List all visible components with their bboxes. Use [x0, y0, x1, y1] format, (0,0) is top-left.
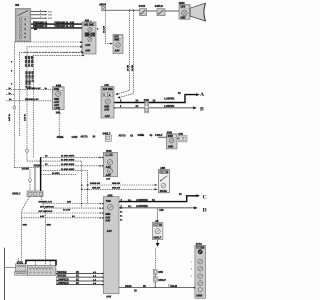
svg-text:3ME: 3ME	[114, 39, 119, 42]
inline connector S4/3	[144, 99, 150, 113]
wire D LOSPKR	[119, 205, 198, 212]
switch S4/5LO	[155, 5, 165, 15]
amplifier A33	[101, 84, 115, 118]
dashed bottom row 2	[40, 205, 102, 211]
svg-text:3ME: 3ME	[181, 16, 186, 19]
svg-text:3ME-2W: 3ME-2W	[112, 188, 120, 190]
dashed branch row 2	[41, 158, 83, 208]
connector A/58	[52, 84, 64, 110]
net label column 2	[26, 71, 35, 82]
svg-text:4: 4	[40, 9, 41, 12]
dashed wire stub left	[6, 93, 14, 95]
wire PWRGND thick to U A52	[31, 21, 82, 27]
svg-text:4: 4	[40, 16, 41, 19]
svg-text:AND: AND	[168, 145, 173, 148]
svg-text:SB: SB	[34, 29, 37, 31]
svg-text:TNTKER: TNTKER	[57, 274, 67, 277]
svg-text:AAV: AAV	[85, 50, 90, 53]
svg-text:AAV: AAV	[85, 44, 90, 47]
wire 3/3B link	[158, 136, 166, 138]
svg-text:PLI: PLI	[128, 200, 132, 202]
svg-text:RAD: RAD	[48, 17, 53, 20]
svg-text:S/GN3: S/GN3	[22, 168, 30, 171]
solid branch line mid	[34, 168, 36, 192]
svg-text:W3PME3 AAV: W3PME3 AAV	[25, 98, 39, 101]
horn speaker 19/05	[179, 2, 206, 21]
svg-text:19/0: 19/0	[181, 6, 186, 9]
svg-text:LOSPKRD: LOSPKRD	[136, 205, 148, 208]
svg-text:3/3B: 3/3B	[168, 135, 173, 138]
svg-text:20/T AMPDOS: 20/T AMPDOS	[40, 205, 54, 208]
splice circle on net h2	[26, 149, 29, 161]
svg-text:3: 3	[191, 262, 192, 264]
svg-text:3ME-2W: 3ME-2W	[92, 188, 100, 190]
component A3	[152, 208, 163, 239]
svg-text:20 AAV: 20 AAV	[103, 25, 106, 33]
dashed wire net h4	[34, 55, 85, 158]
dashed feeds into connectors	[19, 258, 51, 265]
connector 17/11	[191, 243, 206, 298]
svg-text:A52 3ME: A52 3ME	[84, 23, 94, 26]
svg-text:C: C	[203, 194, 207, 200]
svg-text:S/GN2: S/GN2	[34, 164, 42, 167]
relay unit SME small	[113, 35, 123, 54]
amplifier unit A52 top	[81, 20, 99, 54]
svg-text:14/35: 14/35	[196, 294, 203, 297]
wire PWRGND 2 thick to U A52	[31, 25, 82, 31]
svg-text:SV-NE: SV-NE	[160, 190, 168, 193]
svg-text:AUTO: AUTO	[81, 136, 88, 139]
svg-text:20 4WD BW/3: 20 4WD BW/3	[61, 155, 75, 158]
svg-text:PWRGND 31: PWRGND 31	[33, 21, 48, 24]
svg-text:AAV: AAV	[105, 115, 110, 118]
svg-text:THCKER: THCKER	[57, 271, 67, 274]
svg-text:PLI: PLI	[128, 206, 132, 208]
svg-text:LOSPKRD: LOSPKRD	[136, 199, 148, 202]
svg-text:S4B: S4B	[67, 201, 72, 204]
wire amplifier to 17/11	[119, 285, 195, 293]
svg-text:20 GN-SB: 20 GN-SB	[31, 56, 34, 67]
connector S7E1	[14, 261, 27, 275]
thick bridge wire	[26, 260, 56, 265]
dashed branch row 1 to B15	[41, 155, 102, 159]
dashed wire net h1 to A52	[13, 41, 83, 168]
svg-text:20 4WD BW/3: 20 4WD BW/3	[61, 168, 75, 171]
svg-text:PWRGND 3L AAV: PWRGND 3L AAV	[55, 21, 75, 24]
svg-text:2C: 2C	[76, 274, 79, 277]
dashed wire net h2	[27, 46, 83, 149]
svg-text:A33 3ME: A33 3ME	[103, 88, 113, 91]
svg-text:LOSPKR: LOSPKR	[164, 98, 174, 101]
svg-text:S/8L: S/8L	[56, 111, 62, 114]
connector S/B84	[99, 4, 106, 11]
wire THCKER 2	[56, 274, 102, 277]
wire B LOSPKR	[115, 105, 197, 109]
svg-text:LOWPKER: LOWPKER	[57, 282, 69, 285]
svg-text:5: 5	[191, 276, 192, 278]
unit B/15	[102, 150, 118, 181]
svg-text:AAV 3x: AAV 3x	[8, 113, 11, 121]
svg-text:T3M: T3M	[106, 200, 111, 203]
dashed bottom row 1	[39, 201, 102, 205]
dashed wire drop 2 to A33	[117, 11, 134, 99]
svg-text:2C: 2C	[76, 282, 79, 285]
svg-text:20 4WD BW/3: 20 4WD BW/3	[61, 163, 75, 166]
svg-text:AUTO: AUTO	[119, 135, 126, 138]
svg-text:AAV: AAV	[106, 174, 111, 177]
wire C LOSPKR	[119, 193, 200, 202]
svg-text:3ME: 3ME	[23, 225, 28, 227]
svg-text:S47/2: S47/2	[139, 5, 146, 8]
svg-text:AAV: AAV	[106, 296, 111, 299]
dashed bottom row 4	[21, 215, 101, 219]
page edge line	[4, 248, 6, 300]
svg-text:3ME-2W: 3ME-2W	[112, 183, 120, 185]
wire LOWPKER 2	[56, 282, 102, 285]
ground arrow below A3	[156, 240, 160, 247]
wire horn feed	[106, 10, 140, 11]
svg-text:LOSPKR: LOSPKR	[164, 105, 174, 108]
svg-text:B: B	[200, 107, 204, 113]
svg-text:S/B84: S/B84	[99, 4, 106, 7]
wire A58 down	[58, 110, 60, 137]
dashed branch row 4	[41, 168, 89, 204]
svg-text:20 4WD BW/3: 20 4WD BW/3	[61, 158, 75, 161]
dashed branch row 5	[41, 172, 76, 175]
wire A LOSPKR	[115, 92, 200, 103]
fork dashed right	[41, 197, 51, 266]
svg-text:20 4WD: 20 4WD	[52, 172, 60, 175]
switch S47/2	[139, 5, 147, 15]
svg-text:AAV 3x: AAV 3x	[24, 113, 27, 121]
fuse 27/3	[177, 133, 187, 142]
svg-text:S4BLP: S4BLP	[158, 279, 166, 282]
svg-text:34-AAV: 34-AAV	[63, 208, 71, 211]
svg-text:2C: 2C	[76, 278, 79, 281]
wire pin3 450 arrow	[31, 16, 53, 20]
svg-text:RAD: RAD	[48, 14, 53, 17]
wire THCKER 1	[56, 271, 102, 274]
wire A3 chain gap	[154, 249, 156, 269]
svg-text:14B: 14B	[159, 209, 164, 212]
wire pin2 450 arrow	[31, 12, 53, 16]
inline connector S4B	[153, 269, 163, 288]
svg-text:W3PME3 AAV: W3PME3 AAV	[39, 201, 53, 204]
dashed branch row 3 to B15	[41, 163, 102, 167]
connector block wide	[27, 265, 56, 275]
wire pin1 450 arrow	[31, 9, 53, 13]
svg-text:AAV: AAV	[105, 220, 110, 223]
svg-text:GN-M: GN-M	[171, 285, 177, 288]
svg-text:20 GR: 20 GR	[128, 64, 130, 71]
svg-text:450: 450	[15, 4, 20, 7]
svg-text:GN-M: GN-M	[125, 285, 131, 288]
dashed wire h189 to A5B	[82, 188, 158, 191]
dashed branch with splice	[29, 170, 32, 192]
dashed wire S/B84 drop	[103, 11, 113, 45]
tick labels left margin	[11, 62, 13, 86]
junction bus thick line	[40, 157, 42, 191]
svg-text:20/T AMPDOS: 20/T AMPDOS	[39, 210, 53, 213]
svg-text:3HME: 3HME	[138, 134, 145, 137]
net label column 1	[25, 56, 34, 67]
svg-text:AAV: AAV	[115, 50, 120, 53]
svg-text:20 GN-SB: 20 GN-SB	[31, 71, 34, 82]
svg-text:LPW: LPW	[55, 107, 61, 110]
wire	[147, 10, 157, 12]
dashed wire A58 feed 1	[6, 87, 52, 90]
amplifier A/52 bottom	[102, 194, 123, 298]
svg-text:4: 4	[40, 12, 41, 15]
svg-text:AAV: AAV	[40, 215, 45, 218]
fork dashed left	[21, 197, 29, 264]
dashed bottom row 3	[21, 210, 101, 214]
svg-text:3ME: 3ME	[47, 225, 52, 227]
svg-text:3ME-2W: 3ME-2W	[92, 183, 100, 185]
relay A5B	[158, 167, 169, 193]
svg-text:RAD: RAD	[48, 10, 53, 13]
svg-text:LUNE: LUNE	[160, 172, 167, 174]
inline connector S4/3LC	[12, 191, 43, 197]
svg-text:S4/5LO: S4/5LO	[155, 5, 163, 8]
cable run label row	[57, 132, 163, 141]
svg-text:S4B: S4B	[158, 271, 163, 274]
svg-text:AAV: AAV	[104, 109, 109, 112]
inline connector S4BLP	[153, 276, 166, 282]
net label column 3	[26, 81, 32, 88]
svg-text:20 GR: 20 GR	[132, 64, 134, 71]
dashed wire A58 feed 2	[6, 98, 52, 101]
svg-text:H4D: H4D	[105, 154, 110, 157]
svg-text:LOWPKER: LOWPKER	[57, 278, 69, 281]
svg-text:14/2F: 14/2F	[72, 136, 79, 139]
svg-text:2C: 2C	[76, 271, 79, 274]
svg-text:A: A	[200, 92, 204, 98]
svg-text:GN3LF: GN3LF	[153, 236, 161, 239]
wire edge link	[5, 266, 16, 268]
component 3/3B	[166, 131, 177, 149]
svg-text:PWRGND 31: PWRGND 31	[33, 25, 48, 28]
svg-text:AAV: AAV	[107, 230, 112, 233]
svg-text:S4/3LC: S4/3LC	[12, 193, 20, 196]
svg-text:3/NE: 3/NE	[54, 88, 60, 91]
dashed join from left net	[14, 161, 41, 171]
wire LOWPKER 1	[56, 278, 102, 281]
dashed wire h185 to A5B	[88, 183, 158, 186]
svg-text:AAV: AAV	[106, 178, 111, 181]
svg-text:D: D	[203, 208, 207, 214]
wire	[165, 10, 179, 12]
svg-text:14/2LF: 14/2LF	[155, 134, 163, 137]
connector 450	[15, 4, 31, 41]
svg-text:PWRGND 3L AAV: PWRGND 3L AAV	[55, 25, 75, 28]
dashed wire net h3	[19, 52, 84, 137]
svg-text:3HME: 3HME	[57, 136, 64, 139]
svg-text:20 GN: 20 GN	[28, 81, 31, 88]
svg-text:27NE: 27NE	[154, 225, 160, 227]
dashed wire drop 1 to A33	[115, 11, 129, 95]
